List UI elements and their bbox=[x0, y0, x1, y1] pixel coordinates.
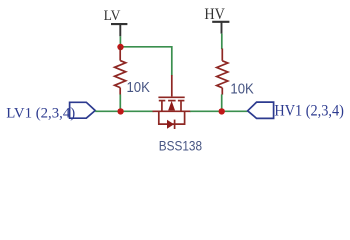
svg-text:HV1 (2,3,4): HV1 (2,3,4) bbox=[274, 103, 344, 120]
port HV1 symbol bbox=[248, 102, 274, 118]
wire HV stub to resistor bbox=[221, 34, 223, 50]
wire transistor to right junction bbox=[190, 110, 247, 112]
junction dot (right signal) bbox=[219, 108, 225, 114]
wire LV junction to gate corner bbox=[120, 47, 171, 76]
svg-text:10K: 10K bbox=[127, 80, 151, 96]
svg-text:HV: HV bbox=[204, 6, 225, 23]
junction dot (left signal) bbox=[117, 108, 123, 114]
junction dot (LV rail) bbox=[117, 44, 123, 50]
transistor Q BSS138 bbox=[153, 75, 191, 129]
wire left port to transistor bbox=[95, 110, 153, 112]
port LV1 symbol bbox=[70, 102, 96, 118]
svg-text:10K: 10K bbox=[230, 82, 254, 98]
wire resistor to signal line (right) bbox=[221, 94, 223, 111]
power port LV bbox=[104, 8, 128, 37]
svg-text:BSS138: BSS138 bbox=[159, 139, 202, 155]
resistor left 10K bbox=[115, 46, 126, 95]
power port HV bbox=[204, 6, 229, 34]
wire resistor to signal line bbox=[119, 94, 121, 111]
svg-text:LV: LV bbox=[104, 8, 121, 24]
wire LV stub to junction bbox=[119, 36, 121, 46]
svg-text:LV1 (2,3,4): LV1 (2,3,4) bbox=[6, 106, 75, 122]
resistor right 10K bbox=[217, 49, 228, 95]
